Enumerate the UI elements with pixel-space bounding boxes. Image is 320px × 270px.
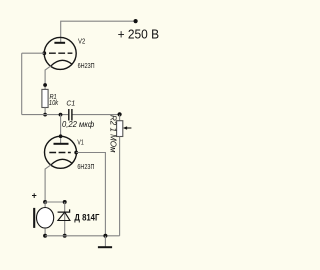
node: zener bottom junction <box>63 234 67 238</box>
wire: V1 anode lead <box>60 115 62 144</box>
svg-text:+: + <box>32 190 37 200</box>
node: microphone top junction <box>43 200 47 204</box>
V1 grid pin dot <box>74 151 78 155</box>
capacitor C1 <box>69 109 72 121</box>
V2 cathode arc <box>51 60 72 66</box>
svg-text:+ 250 В: + 250 В <box>118 26 160 41</box>
V1 anode bar <box>54 143 69 145</box>
wire: V1 cathode lead down <box>45 165 51 202</box>
V2 envelope <box>44 37 76 69</box>
zener cathode bar with tick <box>58 209 70 212</box>
zener diode Д814Г <box>58 202 70 236</box>
wire: V2 grid to left rail <box>22 52 45 54</box>
V1 grid (dashed) <box>49 152 71 154</box>
svg-text:C1: C1 <box>66 99 75 108</box>
V1 envelope <box>45 136 77 168</box>
potentiometer R2 <box>117 115 132 236</box>
svg-text:V2: V2 <box>78 39 85 46</box>
wire: R2 bottom lead <box>119 137 121 236</box>
mic membrane bar <box>33 208 35 228</box>
tube V1 (6Н23П triode) <box>45 136 79 168</box>
resistor R1 <box>42 89 48 107</box>
V2 grid (dashed) <box>49 52 72 54</box>
node: V1 anode junction <box>59 113 63 117</box>
wire: V1 grid to right and down <box>76 153 105 236</box>
V2 anode bar <box>54 42 65 44</box>
zener triangle (anode, pointing up) <box>58 212 70 220</box>
svg-text:R2 1 МОм: R2 1 МОм <box>108 115 117 153</box>
V2 grid pin dot <box>42 51 46 55</box>
microphone BM <box>34 202 54 236</box>
ground <box>98 236 112 247</box>
node: zener top junction <box>63 200 67 204</box>
wire: coupling wire left of C1 <box>22 114 68 116</box>
svg-text:10k: 10k <box>49 98 59 107</box>
V1 cathode arc <box>51 159 72 165</box>
node: R1 bottom junction <box>43 113 47 117</box>
svg-text:6Н23П: 6Н23П <box>78 61 95 70</box>
svg-text:V1: V1 <box>77 140 83 147</box>
node: dot on V1 envelope top <box>59 134 63 138</box>
wire: mic to zener top <box>45 201 65 203</box>
tube V2 (6Н23П triode) <box>42 37 76 69</box>
node: ground junction <box>103 234 107 238</box>
wire: bottom rail <box>45 235 120 237</box>
R2 wiper arrow <box>127 127 132 129</box>
wire: left rail down to coupling wire <box>21 53 23 114</box>
node: R2 top junction <box>118 112 122 116</box>
wire: R1 bottom lead <box>44 108 46 115</box>
wire: +250V power rail <box>61 21 136 43</box>
svg-text:6Н23П: 6Н23П <box>77 162 94 171</box>
wire: V2 cathode lead down to R1 <box>45 66 51 90</box>
node: +250V terminal dot <box>134 19 138 23</box>
svg-text:Д 814Г: Д 814Г <box>74 212 100 222</box>
wire: coupling wire right of C1 <box>73 114 120 116</box>
node: dot on cathode wire <box>43 83 47 87</box>
svg-text:0,22 мкф: 0,22 мкф <box>62 120 95 129</box>
node: mic bottom junction <box>43 234 47 238</box>
